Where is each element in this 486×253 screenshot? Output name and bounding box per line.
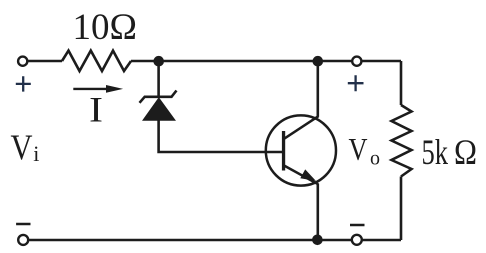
terminal output bottom	[352, 235, 362, 245]
svg-text:I: I	[89, 90, 103, 130]
transistor Q1 emitter diagonal	[284, 166, 318, 185]
terminal input top	[18, 57, 27, 66]
current arrow I head	[106, 85, 123, 93]
terminal input bottom	[18, 235, 28, 245]
wire right branch lower	[400, 177, 403, 241]
transistor Q1 base bar	[282, 131, 285, 171]
resistor R1 10ohm zigzag	[62, 51, 131, 71]
svg-text:10Ω: 10Ω	[73, 7, 138, 48]
plus sign input	[16, 76, 31, 91]
transistor Q1 circle	[266, 115, 336, 185]
wire zener anode to base	[159, 120, 283, 153]
junction dot emitter bottom	[312, 235, 323, 246]
junction dot collector top	[313, 56, 324, 67]
junction dot top of zener	[153, 56, 164, 67]
wire collector vertical	[316, 61, 319, 117]
minus sign input	[16, 223, 30, 226]
svg-text:5k: 5k	[422, 132, 449, 172]
plus sign output	[348, 75, 364, 91]
svg-text:V: V	[11, 127, 33, 167]
wire zener cathode lead	[157, 61, 160, 97]
zener diode D1 cathode bar with bent ends	[140, 91, 177, 103]
wire right branch upper	[400, 61, 403, 105]
current arrow I line	[73, 88, 109, 90]
svg-text:i: i	[33, 141, 39, 166]
transistor Q1 emitter arrowhead	[300, 169, 316, 181]
wire emitter vertical	[316, 184, 319, 241]
wire top rail	[28, 60, 63, 63]
terminal output top	[352, 57, 361, 66]
resistor R2 5kohm zigzag	[392, 105, 412, 177]
svg-text:o: o	[370, 148, 380, 170]
wire top rail right of resistor	[131, 60, 401, 63]
minus sign output	[350, 224, 365, 227]
transistor Q1 collector diagonal	[284, 116, 318, 139]
svg-text:Ω: Ω	[454, 132, 477, 172]
wire bottom rail	[23, 239, 401, 242]
svg-text:V: V	[349, 131, 368, 167]
zener diode D1 triangle	[143, 98, 175, 120]
